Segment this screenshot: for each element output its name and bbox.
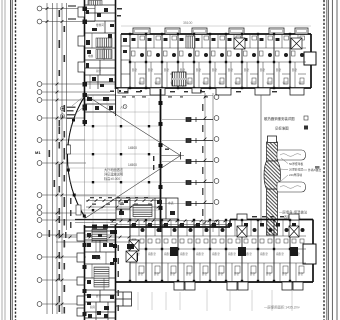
radius line upper [86, 95, 181, 156]
wing-left tiny labels [88, 23, 104, 73]
detail top cap [268, 136, 277, 143]
batt squiggle lower [280, 186, 301, 189]
stair core top wing with X 1 [234, 38, 245, 49]
junction wall blobs [92, 225, 117, 263]
wing-left lower fixtures [87, 230, 114, 318]
dim text marks east of lower wing [118, 245, 120, 311]
extra dim text marks left [59, 120, 66, 314]
extra fixtures upper wing [87, 13, 112, 87]
bottom wing south wall [116, 281, 313, 283]
columns on arc [67, 94, 88, 218]
extra partitions upper wing [90, 33, 104, 89]
junction elevator X [126, 251, 137, 262]
wing-left partitions upper [85, 5, 116, 89]
dimension ticks on left strings [46, 7, 64, 305]
junction stair upper treads [92, 229, 107, 242]
svg-text:见标准图: 见标准图 [275, 126, 289, 131]
balconies west of lower wing [77, 233, 84, 316]
sheet border inner dark lines left [11, 0, 13, 320]
entrance labels [107, 104, 126, 109]
leader lines from left bubbles [42, 9, 116, 305]
svg-text:240厚砖墙: 240厚砖墙 [289, 173, 302, 177]
svg-text:详见建施说明: 详见建施说明 [104, 172, 123, 177]
radius centerline [161, 155, 185, 157]
legend symbol open square [304, 116, 308, 120]
svg-text:楼梯间: 楼梯间 [96, 23, 104, 27]
top wing east wall [310, 34, 312, 88]
courtyard dim line [204, 93, 206, 232]
top wing west edge [120, 34, 122, 88]
detail wall bulge [264, 161, 281, 189]
wing-left lower partitions [85, 231, 116, 320]
bottom wing north wall west segment [116, 226, 230, 228]
radiator symbol 1 [186, 117, 213, 122]
ticks on those rows [112, 219, 230, 226]
entrance leader diagonals [72, 97, 84, 113]
radiator symbol 3 [186, 159, 213, 164]
left vertical dimension strings [47, 3, 67, 314]
junction heavy partition [85, 226, 117, 228]
utility room labels [118, 201, 174, 205]
north balcony inner lines [135, 30, 307, 33]
svg-text:卧室: 卧室 [96, 294, 102, 298]
wing-left lower stair hatch [94, 267, 109, 287]
stair core bottom wing X 1 [237, 226, 247, 237]
bottom wing east protrusion [303, 244, 316, 264]
plinth line below top wing [116, 95, 213, 97]
stair flight lower [96, 50, 112, 59]
sheet fold dashed line right [323, 0, 325, 320]
curved curtain wall arc inner [67, 97, 84, 217]
apartment units top wing [129, 33, 306, 89]
extra partitions lower wing [92, 240, 106, 290]
detail leader texts [289, 162, 321, 177]
svg-text:20厚砂浆层: 20厚砂浆层 [289, 168, 304, 172]
utility fixtures [119, 200, 175, 215]
top wing south wall [116, 87, 312, 89]
dimension text marks along left strings [49, 10, 66, 312]
overall dimension line above top wing [121, 25, 311, 27]
dimension tick row above bottom wing east [252, 216, 284, 217]
west balconies of upper wing [78, 7, 85, 72]
small dim marks near vertex [153, 149, 169, 171]
sheet fold dashed line left [15, 0, 17, 320]
top wing north wall [121, 33, 311, 35]
atrium interior grid verticals [93, 95, 149, 228]
courtyard grid line [212, 93, 214, 232]
dim number marks along courtyard string [202, 104, 204, 216]
insulation batt upper [277, 150, 306, 160]
ticks on courtyard dim line [204, 96, 207, 224]
svg-text:大厅地面做法: 大厅地面做法 [104, 167, 123, 172]
svg-text:配电: 配电 [118, 201, 124, 205]
svg-text:一层使用面积 1435.2m²: 一层使用面积 1435.2m² [264, 305, 300, 310]
entrance partitions [85, 95, 117, 112]
atrium interior grid horizontals [68, 112, 160, 210]
courtyard right boundary line [260, 95, 262, 223]
dim ticks right of wing [110, 8, 122, 92]
batt squiggle upper [280, 154, 301, 157]
junction dim ticks [87, 199, 161, 208]
rooms right of lower wing [116, 292, 132, 306]
wall blobs [83, 93, 88, 124]
dimension tick row below top wing [124, 91, 277, 92]
dim numbers on top-left leaders [68, 5, 76, 19]
wing-left fixtures [86, 8, 114, 82]
svg-text:卧室: 卧室 [96, 256, 102, 260]
junction dim text marks [90, 197, 152, 205]
walkway inner line [75, 222, 116, 224]
wing-left lower east wall [115, 225, 117, 320]
curved curtain wall arc outer [67, 95, 85, 218]
door box on arc mid [67, 145, 71, 154]
svg-text:前室: 前室 [96, 69, 102, 73]
vertical dim text marks x71 [65, 198, 72, 238]
svg-text:厨房: 厨房 [90, 305, 96, 309]
svg-text:M1: M1 [35, 150, 41, 155]
detail leader lines [279, 158, 307, 181]
radius line lower [86, 156, 181, 219]
svg-text:标高±0.000: 标高±0.000 [104, 176, 120, 181]
core protrusion above 2 [289, 214, 299, 220]
dark blobs on lower west wall [83, 243, 87, 316]
svg-text:14500: 14500 [128, 146, 137, 150]
north balconies [133, 28, 308, 34]
svg-text:14500: 14500 [128, 163, 137, 167]
left axis bubbles [37, 6, 42, 306]
svg-text:35100: 35100 [183, 21, 193, 25]
junction dimension string row 2 [86, 206, 160, 208]
lobby west wall segment [115, 88, 117, 116]
junction stair hatched [133, 205, 152, 217]
entrance fixtures [87, 97, 113, 110]
grid lines extending below bottom wing [138, 290, 292, 311]
dim tick row y96.5 below top wing [122, 96, 208, 97]
elevator stair flights mid [96, 38, 112, 47]
detail hatched wall strip [267, 142, 278, 235]
junction dark shaft [127, 244, 134, 249]
stair core top wing with X 2 [291, 38, 302, 49]
small wall marks top wing south [119, 90, 202, 92]
grid chord line through atrium [84, 95, 86, 225]
radiator symbol 2 [186, 138, 213, 143]
wing-left outer wall west [84, 0, 86, 95]
core protrusion above 1 [237, 214, 247, 220]
elevator shafts dark [130, 247, 298, 261]
entrance symbol circle [123, 105, 127, 109]
dark junction blobs on west wall [83, 7, 88, 87]
radiator symbol 5 [186, 201, 213, 206]
lower dimension row ticks [59, 236, 131, 239]
extra fixtures lower wing [87, 234, 114, 315]
walkway south of arc [75, 219, 116, 221]
svg-text:水表: 水表 [168, 201, 174, 205]
lower dimension row above wing-left [56, 236, 130, 238]
wing-left outer wall east [115, 0, 117, 89]
grid line x116 through atrium [115, 95, 117, 227]
corner room partitions [121, 46, 130, 74]
atrium grid dots [92, 125, 150, 211]
entrance annotation text marks [67, 107, 76, 120]
dimension string row 2 above bottom wing [110, 224, 229, 226]
vertex tick [180, 152, 182, 160]
south balconies of top wing [118, 88, 304, 95]
radiator left extension lines [162, 120, 186, 204]
insulation batt lower [277, 182, 306, 192]
legend symbol filled square [304, 126, 308, 130]
entrance annotation circles [60, 106, 64, 118]
north wall jog [229, 220, 231, 228]
dimension string row 1 above bottom wing [110, 220, 229, 222]
stair core bottom wing X 2 [289, 226, 299, 237]
utility rooms walls [116, 198, 178, 219]
stair core bottom wing X 3 [129, 240, 139, 251]
margin note right [315, 166, 320, 169]
apartment units bottom wing [129, 219, 306, 282]
sheet border outer thin lines left [2, 0, 5, 320]
wing-left lower west wall [84, 225, 86, 320]
courtyard axis bubbles [214, 95, 219, 225]
junction dimension string row 1 [86, 200, 160, 202]
bottom wing north wall east segment [230, 219, 313, 221]
svg-text:散热器采暖安装详图: 散热器采暖安装详图 [264, 116, 295, 121]
lobby east heavy wall [160, 89, 162, 232]
east protrusion of top wing [304, 52, 316, 65]
lower dimension row line 2 [56, 241, 130, 243]
svg-text:50厚聚苯板: 50厚聚苯板 [289, 162, 304, 166]
small stair top wing [186, 36, 195, 48]
radiator symbol 4 [186, 180, 213, 185]
wing-left lower labels [90, 256, 102, 309]
corner room fixtures [123, 38, 127, 53]
stair core top wing mid [172, 72, 186, 86]
entrance front heavy wall [84, 92, 86, 126]
door box on arc lower [76, 205, 81, 215]
sheet border lines right [327, 0, 337, 320]
atrium note text block [104, 167, 123, 181]
svg-text:电梯: 电梯 [88, 54, 94, 58]
columns along lobby east wall [159, 101, 163, 210]
bottom wing east wall [312, 220, 314, 283]
stair flight top [88, 1, 102, 6]
south balconies bottom wing [174, 282, 303, 290]
